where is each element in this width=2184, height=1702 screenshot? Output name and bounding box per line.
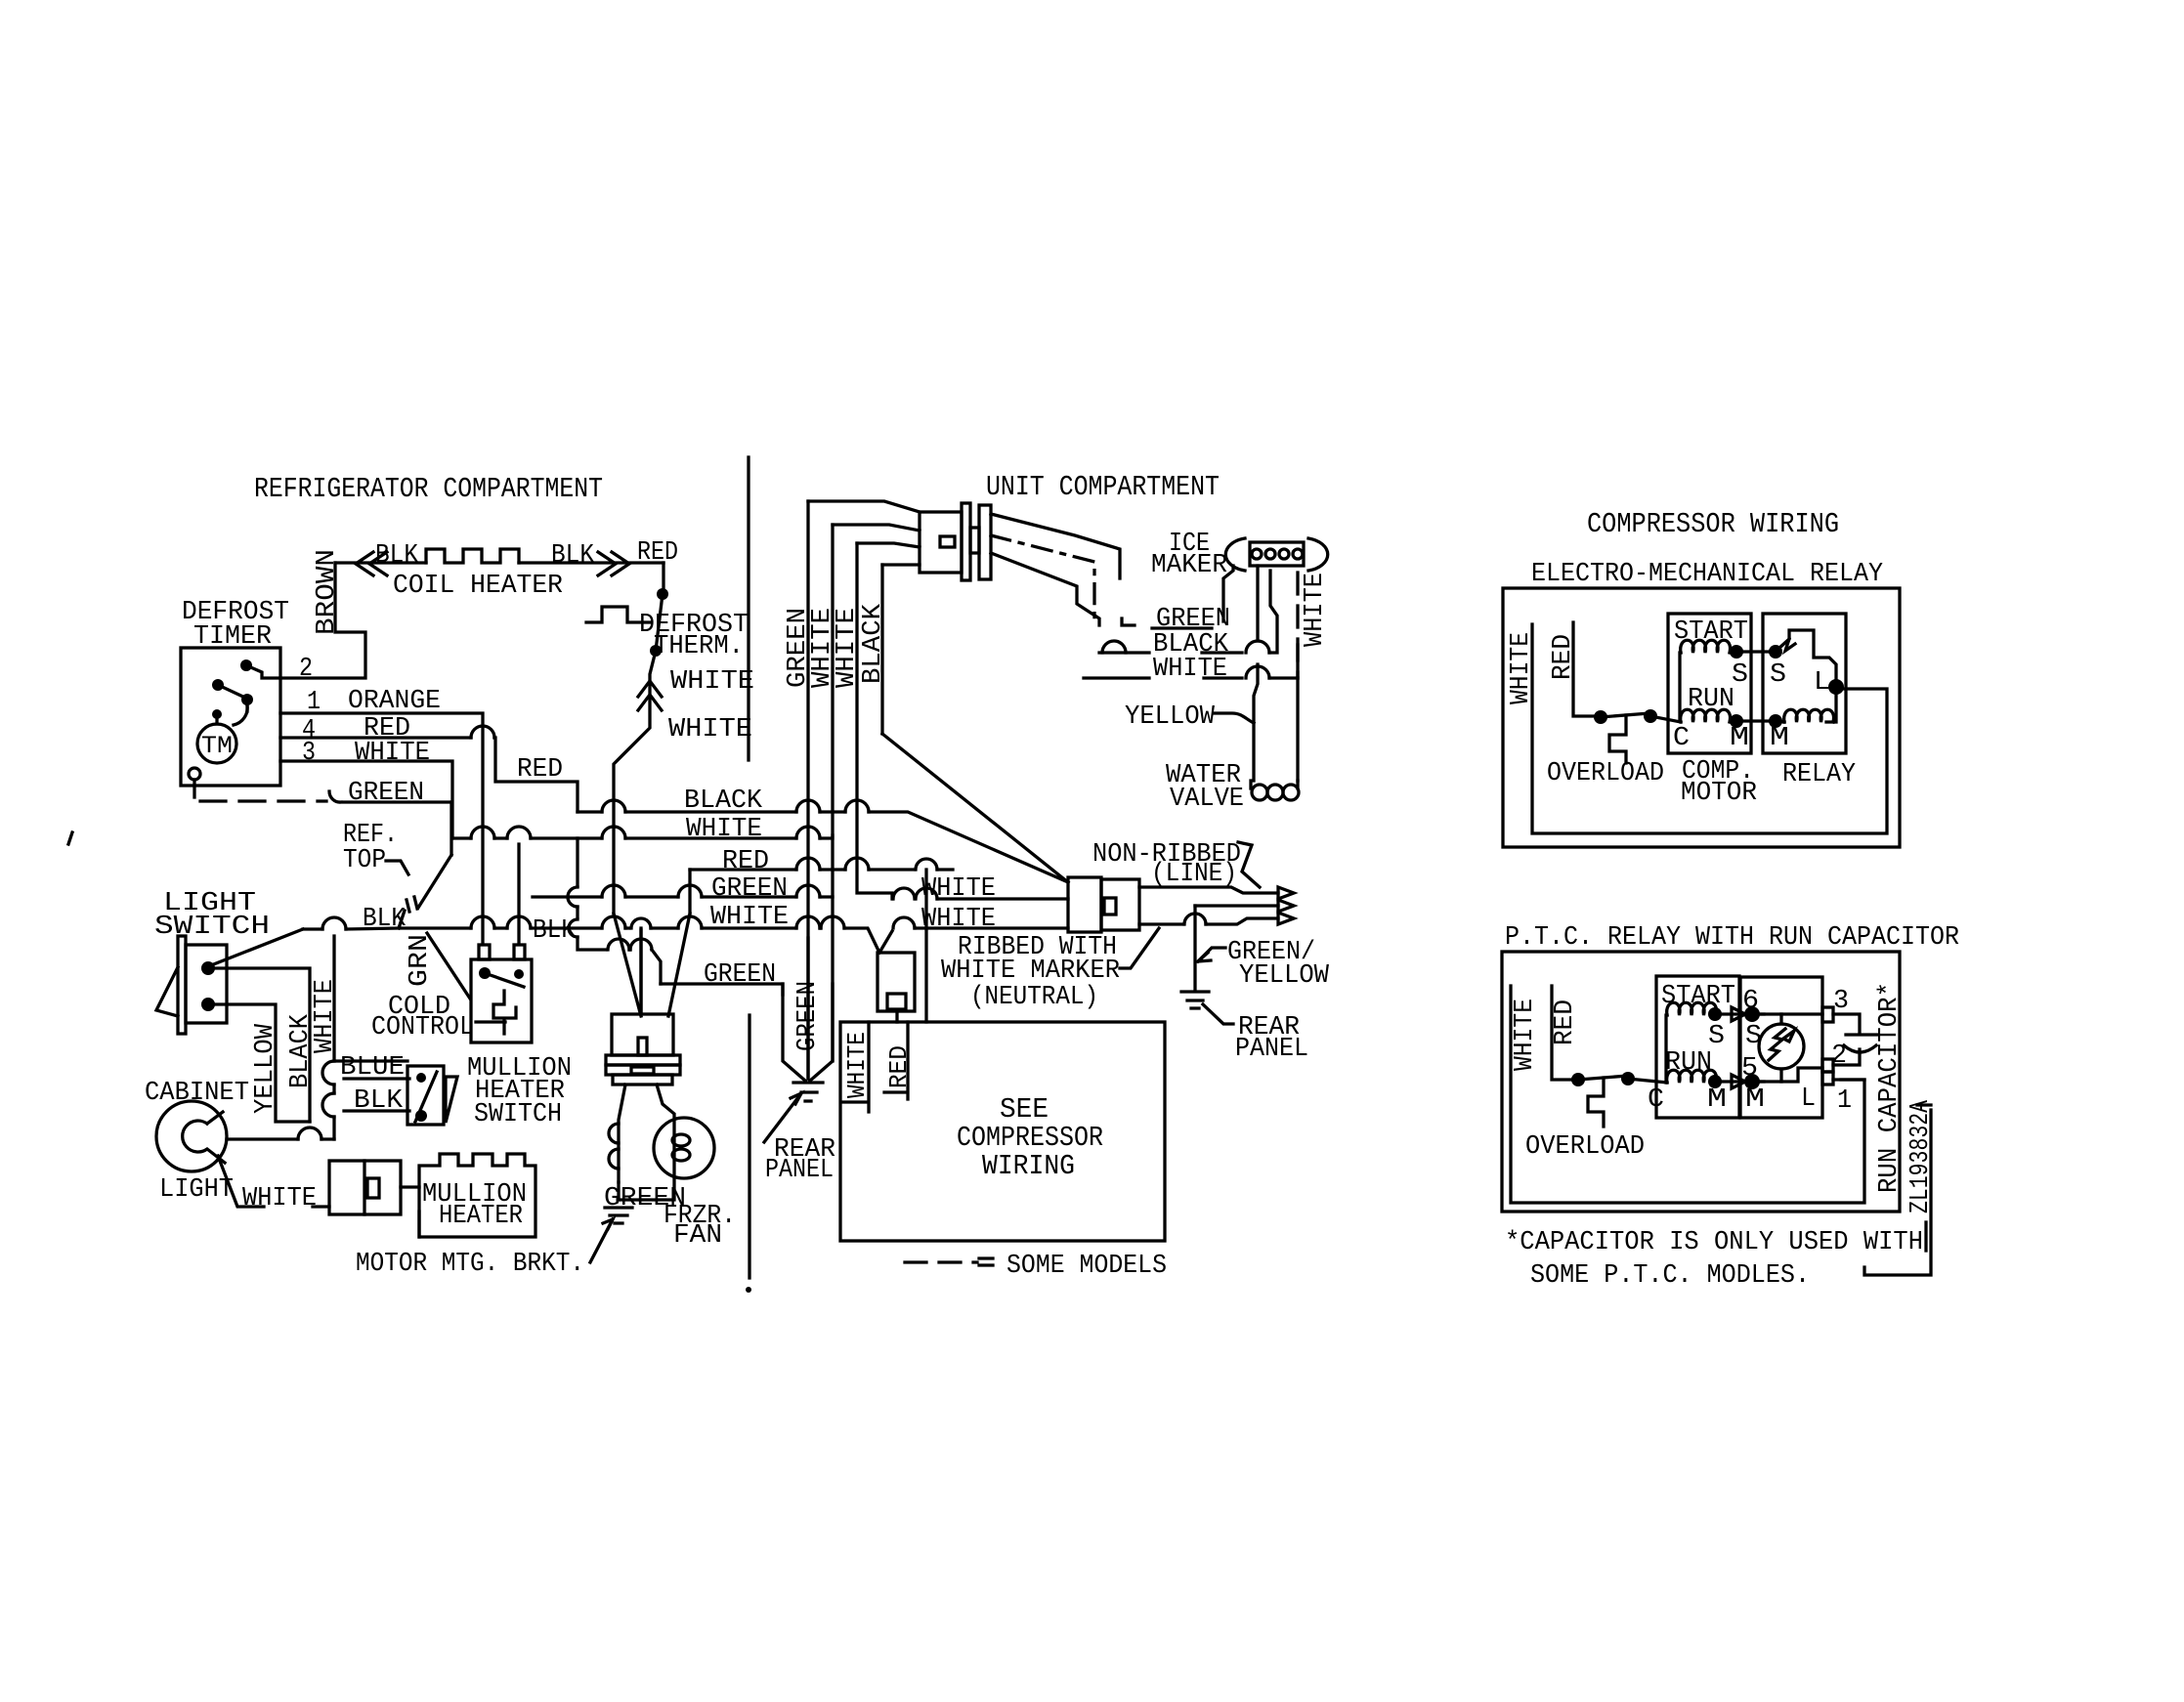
- wire: line out bottom with arrow: [1139, 922, 1183, 925]
- wire: black bus: [578, 810, 602, 813]
- em start coil: [1681, 640, 1731, 653]
- wire: long white wire: [303, 927, 322, 930]
- wire: capacitor to tab2: [1833, 1049, 1860, 1065]
- svg-text:YELLOW: YELLOW: [1125, 702, 1216, 732]
- timer switch blade: [218, 685, 245, 698]
- svg-text:SWITCH: SWITCH: [154, 913, 270, 942]
- svg-text:SWITCH: SWITCH: [474, 1100, 562, 1129]
- ref top switch: wire from green wire down: [450, 802, 452, 855]
- svg-text:OVERLOAD: OVERLOAD: [1547, 759, 1664, 788]
- wire: line out top with arrow: [1139, 887, 1278, 893]
- wire: white wire upper to connector: [890, 897, 893, 900]
- timer bottom open terminal: [189, 768, 200, 780]
- wire: lower green wire: [661, 984, 783, 995]
- em relay armature arrow: [1785, 639, 1795, 651]
- leader: rear panel arrow: [764, 1093, 801, 1142]
- ptc comp motor box: [1656, 976, 1739, 1118]
- light switch mounting plate: [178, 936, 186, 1034]
- wire: coil heater left lead: [335, 561, 426, 564]
- svg-text:HEATER: HEATER: [439, 1202, 523, 1231]
- ptc run coil: [1667, 1070, 1717, 1083]
- svg-text:WHITE: WHITE: [1511, 999, 1540, 1071]
- footnote bracket line: [1924, 1222, 1927, 1251]
- wire: em run coil left leg: [1650, 716, 1681, 722]
- svg-text:WHITE: WHITE: [670, 667, 754, 697]
- neutral connector box right: [1101, 879, 1139, 930]
- svg-text:WHITE: WHITE: [1301, 573, 1330, 647]
- wire: grn diagonal to cold control: [427, 933, 470, 999]
- wire: green center wire to ground: [806, 938, 809, 1079]
- wire: white wire below defrost therm with up chevrons: [614, 651, 656, 914]
- cold control box: [471, 959, 532, 1042]
- wire: green bus: [533, 895, 602, 898]
- mullion heater switch triangle: [446, 1077, 457, 1123]
- zl bracket: [1917, 1103, 1931, 1106]
- svg-text:L: L: [1814, 668, 1830, 698]
- wire: em white loop: [1532, 624, 1887, 833]
- leader: rear panel right: [1203, 1004, 1233, 1024]
- svg-text:VALVE: VALVE: [1170, 785, 1244, 814]
- arrow chevrons up on white wire: [638, 681, 662, 710]
- svg-text:S: S: [1708, 1022, 1725, 1051]
- ice maker pin 1: [1252, 549, 1262, 559]
- svg-text:M: M: [1707, 1085, 1727, 1115]
- wire: long wire tap to fan connector: [639, 928, 642, 1014]
- svg-text:PANEL: PANEL: [1235, 1035, 1308, 1064]
- resistor: coil heater zigzag: [426, 549, 519, 563]
- em start coil dot: [1730, 645, 1743, 659]
- wire: green wire to ground: [617, 1182, 620, 1200]
- cold control switch blade: [485, 973, 524, 987]
- wire: em run to relay M: [1736, 719, 1771, 722]
- wire: white wire lower to connector: [879, 931, 892, 953]
- light switch lever: [156, 967, 178, 1016]
- freezer fan connector key: [631, 1067, 654, 1074]
- wire: green underline wire: [1152, 626, 1212, 629]
- neutral connector box left: [1068, 877, 1101, 932]
- em overload blade: [1601, 713, 1649, 717]
- svg-text:REFRIGERATOR COMPARTMENT: REFRIGERATOR COMPARTMENT: [254, 473, 603, 505]
- svg-text:PANEL: PANEL: [765, 1156, 834, 1185]
- wire: red wire from timer pin 4: [280, 736, 471, 739]
- wire: ice maker center wire down: [1256, 566, 1259, 641]
- svg-text:OVERLOAD: OVERLOAD: [1525, 1132, 1645, 1162]
- wire: fan connector to green ground: [619, 1085, 625, 1182]
- wire: into fan connector mid: [639, 930, 642, 1014]
- wire: white wire down to water valve dashed: [1296, 573, 1299, 678]
- ptc terminal tab 2: [1822, 1059, 1833, 1072]
- wire: white wire from timer pin 3: [280, 761, 452, 838]
- wire: white wire into water valve: [1296, 678, 1299, 781]
- wire: blk wire to mullion heater switch: [344, 1109, 409, 1112]
- ground: motor mtg brkt: [605, 1208, 632, 1223]
- wire: white vertical (cabinet area): [332, 936, 335, 1061]
- svg-text:1: 1: [1837, 1086, 1852, 1116]
- wire: ptc M-L wire: [1752, 1068, 1822, 1082]
- defrost thermostat: switch blade: [656, 594, 663, 651]
- svg-text:*CAPACITOR IS ONLY USED WITH: *CAPACITOR IS ONLY USED WITH: [1505, 1228, 1923, 1257]
- arrow chevrons << on coil heater wire: [356, 552, 387, 575]
- wire: black wire from switch: [213, 968, 310, 1122]
- svg-text:TOP: TOP: [343, 846, 386, 875]
- svg-text:6: 6: [1742, 987, 1759, 1016]
- svg-text:COMPRESSOR WIRING: COMPRESSOR WIRING: [1587, 508, 1839, 540]
- svg-text:THERM.: THERM.: [654, 632, 744, 661]
- wire: em start coil left leg: [1680, 653, 1681, 721]
- unit compartment plug body: [920, 512, 962, 573]
- electro-mechanical relay outer box: [1503, 588, 1900, 847]
- svg-text:SOME MODELS: SOME MODELS: [1006, 1252, 1167, 1281]
- ice maker connector body: [1250, 542, 1304, 566]
- ptc relay box: [1740, 977, 1822, 1118]
- wire: green riser top bend to plug: [808, 501, 920, 512]
- ice maker pin 2: [1265, 549, 1275, 559]
- capacitor top plate: [1846, 1033, 1877, 1036]
- leader: green-yellow arrow: [1198, 948, 1225, 961]
- em overload dot left: [1594, 710, 1607, 724]
- mullion heater switch box: [407, 1066, 444, 1125]
- wire: green-yellow drop: [1193, 906, 1196, 990]
- wire: line out mid with arrow: [1195, 904, 1278, 907]
- wire: ptc run coil left leg: [1628, 1079, 1667, 1083]
- timer contact dot a: [212, 679, 224, 691]
- cabinet light filament horseshoe: [183, 1112, 225, 1163]
- freezer fan motor circle: [654, 1118, 714, 1178]
- svg-text:ELECTRO-MECHANICAL RELAY: ELECTRO-MECHANICAL RELAY: [1531, 560, 1883, 589]
- see box white lead line: [867, 1022, 870, 1112]
- svg-text:WHITE: WHITE: [242, 1184, 317, 1213]
- wire: into fan connector right diagonal: [668, 914, 690, 1016]
- leader: cabinet light to white label: [218, 1156, 264, 1207]
- svg-text:L: L: [1801, 1085, 1816, 1114]
- wire: mullion heater switch top lead: [334, 1059, 407, 1062]
- wire: red vertical to cold control: [517, 844, 520, 942]
- svg-text:CABINET: CABINET: [145, 1079, 249, 1108]
- legend: dashed some models: [905, 1260, 977, 1263]
- hop arcs near fan connector: [609, 1124, 619, 1143]
- cold control terminal post left: [479, 945, 490, 959]
- compressor lead connector inner key: [887, 994, 906, 1009]
- wire: cabinet light to white vertical: [227, 1137, 298, 1140]
- wire: white riser 2 top bend: [857, 543, 920, 547]
- ptc start coil dot: [1708, 1007, 1722, 1021]
- em relay coil: [1784, 709, 1834, 722]
- wire: black underline wire: [1099, 651, 1149, 654]
- svg-text:C: C: [1648, 1085, 1664, 1115]
- svg-text:3: 3: [302, 739, 316, 768]
- see compressor wiring box: [840, 1022, 1165, 1241]
- wire: red bus left elbow down: [688, 870, 691, 914]
- ptc relay M dot: [1744, 1074, 1760, 1089]
- em run coil dot: [1730, 714, 1743, 728]
- svg-text:GREEN: GREEN: [711, 874, 788, 904]
- ice maker pin 3: [1279, 549, 1289, 559]
- svg-text:WIRING: WIRING: [982, 1150, 1075, 1182]
- ref top switch blade: [418, 855, 451, 908]
- wire: red wire elbow down to defrost thermostat: [662, 563, 664, 590]
- svg-text:CONTROL: CONTROL: [371, 1013, 474, 1042]
- svg-text:RUN CAPACITOR*: RUN CAPACITOR*: [1875, 982, 1905, 1193]
- wire: brown wire from coil heater to timer terminal 2: [280, 563, 365, 678]
- wire: ptc run to M with arrow: [1715, 1080, 1764, 1083]
- mullion heater switch bottom contact: [415, 1110, 427, 1122]
- svg-text:RED: RED: [722, 847, 769, 876]
- compressor lead connector outer: [878, 953, 915, 1011]
- defrost thermostat: bottom terminal dot: [650, 645, 662, 657]
- wire: em start to relay S: [1736, 650, 1771, 653]
- see box red lead line: [906, 1022, 909, 1099]
- svg-text:YELLOW: YELLOW: [1239, 961, 1330, 991]
- svg-text:BLK: BLK: [375, 541, 419, 571]
- wire: ref top switch to long wire: [399, 911, 405, 928]
- mullion heater castellated body: [419, 1154, 535, 1237]
- cold control contact dot left: [479, 967, 491, 979]
- wire: blue wire to mullion heater switch: [344, 1077, 409, 1080]
- leader: non-ribbed bracket: [1238, 842, 1260, 887]
- wire: ptc white loop: [1511, 986, 1864, 1203]
- em relay L dot: [1828, 679, 1844, 695]
- wire: white bus: [452, 836, 471, 839]
- svg-text:MOTOR MTG. BRKT.: MOTOR MTG. BRKT.: [356, 1250, 584, 1279]
- wire: left column from white bus down: [576, 838, 578, 886]
- em overload staircase: [1609, 715, 1626, 763]
- svg-text:TM: TM: [201, 732, 233, 760]
- svg-text:COIL HEATER: COIL HEATER: [393, 572, 563, 601]
- mullion heater connector divider: [363, 1161, 365, 1214]
- wire: light switch to blk wire (diagonal): [211, 929, 303, 965]
- defrost thermostat: top terminal dot: [657, 588, 668, 600]
- svg-text:RED: RED: [517, 755, 563, 785]
- wire: mullion heater bottom lead: [417, 1212, 420, 1237]
- wire: coil heater right lead: [519, 561, 664, 564]
- mullion heater connector outer: [329, 1161, 401, 1214]
- unit compartment plug plate 2: [979, 505, 991, 579]
- wire: into fan connector left diagonal: [614, 914, 641, 1016]
- svg-text:START: START: [1661, 982, 1735, 1011]
- wire: tab1 out: [1833, 1078, 1864, 1081]
- light switch body: [186, 945, 227, 1023]
- svg-text:WHITE: WHITE: [668, 715, 752, 745]
- mullion heater switch top contact: [416, 1073, 426, 1083]
- ground: green-yellow rear panel: [1181, 992, 1209, 1008]
- wire: green hook: [329, 791, 451, 802]
- unit compartment plug pin: [970, 528, 979, 553]
- timer internal wire: [215, 714, 218, 724]
- capacitor bottom plate: [1844, 1045, 1876, 1052]
- ptc overload dot left: [1571, 1073, 1585, 1086]
- wire: plug to ice maker dash-dot: [991, 535, 1094, 625]
- em relay M dot: [1769, 714, 1782, 728]
- svg-text:GRN: GRN: [406, 934, 435, 987]
- wire: ptc 6-3 wire: [1752, 1012, 1822, 1015]
- ptc overload staircase: [1588, 1078, 1604, 1127]
- divider line between compartments (upper): [747, 457, 749, 760]
- svg-text:WHITE: WHITE: [355, 739, 430, 768]
- wire: long diagonal black riser to neutral connector: [882, 734, 1068, 882]
- wire: tab3 to capacitor: [1833, 1014, 1860, 1033]
- em relay S dot: [1769, 645, 1782, 659]
- leader: motor mtg brkt arrow: [590, 1219, 613, 1262]
- wire: connector into see box: [895, 1011, 898, 1022]
- wire: red bus drop to see box: [924, 870, 927, 1022]
- ptc terminal tab 3: [1822, 1007, 1833, 1022]
- leader: ref top dash: [386, 861, 408, 874]
- em overload dot right: [1644, 709, 1657, 723]
- svg-text:RED: RED: [637, 538, 678, 568]
- svg-text:MOTOR: MOTOR: [1681, 779, 1757, 808]
- wire: ptc circle top lead: [1779, 1014, 1782, 1024]
- svg-text:P.T.C. RELAY WITH RUN CAPACITO: P.T.C. RELAY WITH RUN CAPACITOR: [1505, 923, 1959, 953]
- svg-text:UNIT COMPARTMENT: UNIT COMPARTMENT: [986, 471, 1220, 503]
- timer motor TM circle: [197, 724, 236, 763]
- em run coil: [1681, 709, 1731, 722]
- leader: white marker dash: [1120, 928, 1159, 968]
- defrost thermostat: heater step symbol: [586, 607, 651, 622]
- ref top switch contact ticks: [407, 897, 417, 912]
- wire: black riser: [880, 565, 883, 734]
- svg-text:BLK: BLK: [533, 916, 577, 946]
- wire: white riser 2: [857, 543, 892, 899]
- wire: ptc red wire: [1552, 986, 1573, 1080]
- ptc thermistor circle: [1759, 1024, 1804, 1069]
- ptc start coil: [1667, 1002, 1717, 1015]
- leader: yellow dash: [1215, 713, 1254, 723]
- ptc outer box: [1502, 952, 1900, 1212]
- ice maker pin 4: [1293, 549, 1303, 559]
- wire: ptc circle bottom lead: [1779, 1069, 1782, 1082]
- wire: connector to heater: [401, 1185, 419, 1188]
- wire: ptc start to 6 with arrow: [1715, 1012, 1764, 1015]
- mullion heater connector key: [367, 1178, 379, 1198]
- ice maker bracket right: [1308, 538, 1328, 571]
- unit compartment plug plate 1: [962, 503, 970, 580]
- freezer fan connector upper box: [612, 1014, 673, 1055]
- svg-text:M: M: [1730, 724, 1749, 753]
- arrow chevrons >> on coil heater wire: [598, 552, 629, 575]
- svg-text:MAKER: MAKER: [1151, 551, 1227, 580]
- pennant outline right: [810, 984, 833, 1081]
- ptc thermistor symbol: [1769, 1029, 1785, 1060]
- wire: orange wire from timer pin 1: [280, 713, 483, 942]
- freezer fan motor coil loops: [672, 1134, 690, 1146]
- wire: dashed (some models) from timer bottom: [200, 799, 326, 802]
- ptc run coil dot: [1708, 1075, 1722, 1088]
- wire: em relay coil to L: [1826, 695, 1836, 722]
- wire: white wire into connector: [313, 1205, 329, 1208]
- pennant outline left: [783, 984, 805, 1081]
- svg-text:SOME P.T.C. MODLES.: SOME P.T.C. MODLES.: [1530, 1261, 1810, 1291]
- wire: white riser 1 continuation to pennant: [831, 835, 834, 1061]
- ptc relay 6 dot: [1744, 1006, 1760, 1022]
- freezer fan connector lower box: [613, 1075, 672, 1085]
- svg-text:3: 3: [1833, 987, 1849, 1016]
- wire: green riser: [806, 501, 809, 1079]
- timer terminal 2 dot: [240, 660, 252, 671]
- wire: white riser 1: [831, 525, 834, 835]
- wire: red bus: [690, 868, 796, 871]
- svg-text:C: C: [1673, 724, 1690, 753]
- svg-text:RELAY: RELAY: [1782, 760, 1856, 789]
- leader: cold control dash: [476, 1020, 505, 1023]
- light switch terminal top: [201, 961, 215, 975]
- svg-text:M: M: [1770, 724, 1789, 753]
- ground: pennant rear panel: [793, 1083, 823, 1101]
- svg-text:FAN: FAN: [673, 1221, 722, 1251]
- light switch terminal bottom: [201, 998, 215, 1011]
- timer contact dot b: [212, 709, 222, 719]
- svg-text:(NEUTRAL): (NEUTRAL): [970, 983, 1098, 1012]
- em relay armature: [1778, 630, 1836, 684]
- ptc overload dot right: [1621, 1072, 1635, 1085]
- freezer fan connector flange: [606, 1055, 680, 1065]
- wire: white riser 1 top bend: [833, 525, 920, 531]
- divider speck: [746, 1287, 751, 1293]
- em comp motor box: [1668, 614, 1751, 753]
- svg-text:M: M: [1745, 1085, 1765, 1115]
- em relay box: [1763, 614, 1846, 753]
- water valve coil: [1251, 781, 1298, 788]
- svg-text:WHITE MARKER: WHITE MARKER: [941, 957, 1120, 986]
- neutral connector key: [1104, 898, 1116, 915]
- svg-text:(LINE): (LINE): [1151, 860, 1237, 889]
- wire: plug to ice maker diagonal 2: [991, 553, 1099, 625]
- divider line between compartments (lower): [748, 1015, 750, 1278]
- cold control contact dot right: [514, 969, 524, 979]
- svg-text:LIGHT: LIGHT: [159, 1175, 234, 1205]
- wire: white underline wire: [1084, 676, 1149, 679]
- freezer fan connector flange2: [606, 1065, 680, 1075]
- stray mark (comma, left margin): [68, 832, 72, 844]
- wire: black wire left hop: [1102, 641, 1126, 653]
- mullion heater switch blade: [415, 1072, 437, 1122]
- timer terminal 2 lead: [246, 665, 280, 678]
- cabinet light bulb circle: [156, 1101, 227, 1171]
- timer internal lead to TM: [245, 700, 248, 711]
- freezer fan connector pin: [638, 1038, 647, 1055]
- ptc overload blade: [1578, 1076, 1628, 1080]
- svg-text:2: 2: [299, 655, 313, 684]
- defrost timer TM1 box: [181, 648, 280, 786]
- ice maker bracket left: [1225, 538, 1245, 571]
- svg-text:5: 5: [1741, 1054, 1758, 1084]
- timer terminal 1 dot: [241, 694, 253, 705]
- wire: em relay M lead: [1776, 721, 1784, 722]
- svg-text:S: S: [1770, 660, 1786, 690]
- ptc terminal tab 1: [1822, 1072, 1833, 1085]
- wire: green wire ice maker: [1122, 618, 1135, 625]
- wire: black riser top bend: [882, 563, 920, 566]
- unit compartment plug key: [940, 536, 955, 547]
- cold control terminal post right: [514, 945, 525, 959]
- wire: em red wire: [1573, 622, 1595, 716]
- wire: fan connector to fan motor: [619, 1085, 674, 1200]
- svg-text:YELLOW: YELLOW: [251, 1023, 280, 1114]
- timer bottom terminal lead: [193, 780, 195, 797]
- svg-text:BLK: BLK: [551, 541, 595, 571]
- wire: yellow wire from switch: [213, 1004, 310, 1122]
- wire: plug to ice maker diagonal 1: [991, 514, 1120, 578]
- cold control internal step: [493, 991, 516, 1034]
- svg-text:RED: RED: [1551, 1000, 1580, 1045]
- wire: ptc start coil left leg: [1666, 1015, 1667, 1083]
